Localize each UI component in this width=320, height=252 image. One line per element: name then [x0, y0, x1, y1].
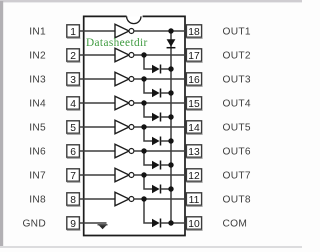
svg-text:IN1: IN1: [29, 27, 46, 38]
wire: drop from OUT6 to diode D6: [144, 151, 152, 165]
svg-text:GND: GND: [22, 219, 46, 230]
svg-text:OUT5: OUT5: [223, 123, 251, 134]
wire: IC edge to pin 11 box: [185, 198, 186, 200]
svg-text:3: 3: [70, 75, 76, 86]
wire: drop from OUT8 to diode D8: [144, 199, 152, 223]
junction: D4 cathode on COM bus: [168, 114, 173, 119]
junction: D6 cathode on COM bus: [168, 162, 173, 167]
svg-text:IN6: IN6: [29, 147, 46, 158]
wire: inverter A7 output to pin 12: [134, 174, 185, 176]
wire: pin 6 box to IC edge: [79, 150, 83, 152]
wire: IC edge to pin 18 box: [185, 30, 186, 32]
pin 17 terminal box: [186, 49, 202, 62]
svg-text:16: 16: [188, 75, 200, 86]
wire: inverter A6 output to pin 13: [134, 150, 185, 152]
wire: input pin 8 to inverter A8: [84, 198, 115, 200]
pin 7 terminal box: [67, 169, 81, 182]
svg-text:OUT8: OUT8: [223, 195, 251, 206]
inverter/driver A8: [115, 192, 134, 206]
svg-text:IN8: IN8: [29, 195, 46, 206]
svg-text:8: 8: [70, 195, 76, 206]
svg-text:IN3: IN3: [29, 75, 46, 86]
wire: drop from OUT2 to diode D2: [144, 55, 152, 69]
clamp diode D5 (anode left, cathode to COM bus): [152, 137, 171, 146]
wire: drop from OUT4 to diode D4: [144, 103, 152, 117]
wire: IC edge to pin 14 box: [185, 126, 186, 128]
svg-text:OUT7: OUT7: [223, 171, 251, 182]
pin 5 terminal box: [67, 121, 81, 134]
pin 12 terminal box: [186, 169, 202, 182]
pin 8 terminal box: [67, 193, 81, 206]
wire: IC edge to pin 10 box: [185, 222, 186, 224]
svg-text:7: 7: [70, 171, 76, 182]
wire: inverter A8 output to pin 11: [134, 198, 185, 200]
junction: OUT3 wire tap: [141, 76, 146, 81]
junction: OUT8 wire tap: [141, 196, 146, 201]
COM bus (vertical net to pin 10): [170, 31, 172, 223]
wire: inverter A3 output to pin 16: [134, 78, 185, 80]
wire: input pin 6 to inverter A6: [84, 150, 115, 152]
svg-text:10: 10: [188, 219, 200, 230]
svg-text:IN2: IN2: [29, 51, 46, 62]
svg-text:Datasheetdir: Datasheetdir: [86, 37, 148, 49]
junction: D2 cathode on COM bus: [168, 66, 173, 71]
ground symbol: [98, 225, 108, 229]
wire: IC edge to pin 13 box: [185, 150, 186, 152]
wire: pin 4 box to IC edge: [79, 102, 83, 104]
svg-text:9: 9: [70, 219, 76, 230]
wire: input pin 5 to inverter A5: [84, 126, 115, 128]
wire: drop from OUT7 to diode D7: [144, 175, 152, 189]
inverter/driver A4: [115, 96, 134, 110]
pin 1 terminal box: [67, 25, 81, 38]
wire: inverter A2 output to pin 17: [134, 54, 185, 56]
pin 14 terminal box: [186, 121, 202, 134]
pin 16 terminal box: [186, 73, 202, 86]
svg-text:11: 11: [189, 195, 200, 206]
wire: input pin 2 to inverter A2: [84, 54, 115, 56]
IC body U1 (18-pin DIP outline): [84, 16, 185, 235]
svg-text:15: 15: [188, 99, 200, 110]
inverter/driver A6: [115, 144, 134, 158]
inverter/driver A2: [115, 48, 134, 62]
junction: D5 cathode on COM bus: [168, 138, 173, 143]
pin 9 terminal box: [67, 217, 81, 230]
wire: pin 1 box to IC edge: [79, 30, 83, 32]
wire: pin 3 box to IC edge: [79, 78, 83, 80]
pin 6 terminal box: [67, 145, 81, 158]
pin 10 terminal box: [186, 217, 202, 230]
junction: D1 anode on OUT1 wire: [168, 28, 173, 33]
clamp diode D1 (vertical, cathode down to COM bus): [167, 39, 176, 47]
svg-text:OUT4: OUT4: [223, 99, 251, 110]
junction: D8 cathode on COM bus: [168, 220, 173, 225]
pin 3 terminal box: [67, 73, 81, 86]
inverter/driver A3: [115, 72, 134, 86]
wire: drop from OUT5 to diode D5: [144, 127, 152, 141]
clamp diode D2 (anode left, cathode to COM bus): [152, 65, 171, 74]
wire: pin 7 box to IC edge: [79, 174, 83, 176]
svg-text:6: 6: [70, 147, 76, 158]
junction: OUT2 wire tap: [141, 52, 146, 57]
svg-text:1: 1: [70, 27, 76, 38]
wire: pin 5 box to IC edge: [79, 126, 83, 128]
junction: OUT7 wire tap: [141, 172, 146, 177]
wire: drop from OUT3 to diode D3: [144, 79, 152, 93]
inverter/driver A1: [115, 24, 134, 38]
wire: inverter A5 output to pin 14: [134, 126, 185, 128]
clamp diode D4 (anode left, cathode to COM bus): [152, 113, 171, 122]
svg-text:14: 14: [188, 123, 200, 134]
svg-text:4: 4: [70, 99, 76, 110]
junction: OUT5 wire tap: [141, 124, 146, 129]
junction: D3 cathode on COM bus: [168, 90, 173, 95]
wire: IC edge to pin 17 box: [185, 54, 186, 56]
inverter/driver A7: [115, 168, 134, 182]
wire: inverter A4 output to pin 15: [134, 102, 185, 104]
pin 13 terminal box: [186, 145, 202, 158]
wire: pin 2 box to IC edge: [79, 54, 83, 56]
wire: GND pin 9 into IC: [84, 222, 107, 224]
junction: D7 cathode on COM bus: [168, 186, 173, 191]
clamp diode D8 (anode left, cathode to COM bus): [152, 219, 171, 228]
junction: OUT6 wire tap: [141, 148, 146, 153]
clamp diode D7 (anode left, cathode to COM bus): [152, 185, 171, 194]
wire: COM bus to pin 10: [171, 222, 185, 224]
clamp diode D3 (anode left, cathode to COM bus): [152, 89, 171, 98]
wire: pin 8 box to IC edge: [79, 198, 83, 200]
pin 15 terminal box: [186, 97, 202, 110]
wire: input pin 7 to inverter A7: [84, 174, 115, 176]
junction: OUT4 wire tap: [141, 100, 146, 105]
pin-1 orientation notch: [127, 16, 141, 23]
clamp diode D6 (anode left, cathode to COM bus): [152, 161, 171, 170]
svg-text:12: 12: [188, 171, 200, 182]
svg-text:2: 2: [70, 51, 76, 62]
svg-text:COM: COM: [223, 219, 248, 230]
pin 11 terminal box: [186, 193, 202, 206]
svg-text:IN7: IN7: [29, 171, 46, 182]
inverter/driver A5: [115, 120, 134, 134]
pin 2 terminal box: [67, 49, 81, 62]
wire: input pin 1 to inverter A1: [84, 30, 115, 32]
svg-text:17: 17: [188, 51, 200, 62]
svg-text:13: 13: [188, 147, 200, 158]
svg-text:OUT2: OUT2: [223, 51, 251, 62]
pin 4 terminal box: [67, 97, 81, 110]
wire: IC edge to pin 12 box: [185, 174, 186, 176]
svg-text:OUT3: OUT3: [223, 75, 251, 86]
wire: input pin 4 to inverter A4: [84, 102, 115, 104]
svg-text:18: 18: [188, 27, 200, 38]
svg-text:OUT1: OUT1: [223, 27, 251, 38]
wire: inverter A1 output to pin 18: [134, 30, 185, 32]
pin 18 terminal box: [186, 25, 202, 38]
svg-text:IN4: IN4: [29, 99, 46, 110]
svg-text:5: 5: [70, 123, 76, 134]
svg-text:OUT6: OUT6: [223, 147, 251, 158]
wire: IC edge to pin 16 box: [185, 78, 186, 80]
wire: IC edge to pin 15 box: [185, 102, 186, 104]
wire: pin 9 box to IC edge: [79, 222, 83, 224]
wire: input pin 3 to inverter A3: [84, 78, 115, 80]
svg-text:IN5: IN5: [29, 123, 46, 134]
